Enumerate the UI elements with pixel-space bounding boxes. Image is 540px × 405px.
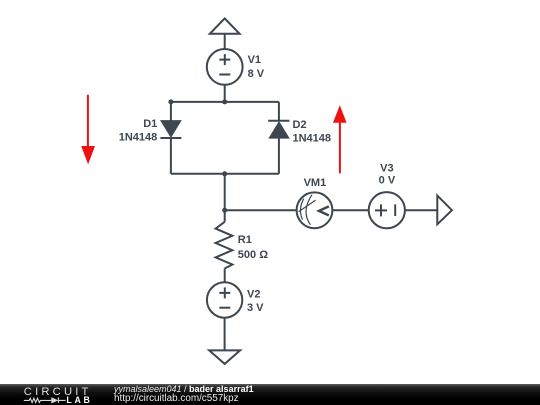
label V1 / 8 V <box>248 54 265 80</box>
diode D1 (1N4148, anode up) <box>160 121 181 138</box>
wire: bottom rail <box>171 173 279 175</box>
diode D2 (1N4148, anode down) <box>268 121 289 138</box>
annotation arrow (red, down) left <box>81 95 95 165</box>
voltmeter VM1 <box>297 192 333 228</box>
wire: left branch upper <box>170 102 172 121</box>
wire: V2 to ground <box>224 318 226 351</box>
credit text <box>114 385 254 394</box>
svg-text:0 V: 0 V <box>379 174 396 186</box>
wire: VM1 to V3 <box>332 209 368 211</box>
svg-text:3 V: 3 V <box>247 302 264 314</box>
svg-text:D1: D1 <box>143 118 157 130</box>
footer bar <box>0 384 540 405</box>
wire: top rail <box>171 101 279 103</box>
svg-text:500 Ω: 500 Ω <box>238 249 268 261</box>
svg-text:R1: R1 <box>238 234 252 246</box>
wire: right branch upper <box>278 102 280 121</box>
svg-text:LAB: LAB <box>66 395 92 405</box>
wire: V3 to output port <box>405 209 437 211</box>
label R1 / 500 ohm <box>238 234 268 261</box>
label D2 / 1N4148 <box>293 119 332 144</box>
wire: R1 to V2 <box>224 268 226 282</box>
svg-text:1N4148: 1N4148 <box>119 132 158 144</box>
label D1 / 1N4148 <box>119 118 158 144</box>
svg-text:VM1: VM1 <box>304 177 327 189</box>
svg-text:V2: V2 <box>247 288 260 300</box>
node junction dot (bottom rail middle) <box>222 171 227 176</box>
svg-text:V1: V1 <box>248 54 261 66</box>
port P2 (right arrow terminal) <box>437 196 452 225</box>
node junction dot (top middle, V1 tap) <box>222 99 227 104</box>
resistor R1 (500 ohm) <box>216 222 233 269</box>
CircuitLab logo <box>0 384 110 405</box>
wire: V1 to top rail <box>224 85 226 102</box>
wire: left branch lower <box>170 138 172 174</box>
voltage source V1 (8 V) <box>207 49 243 85</box>
annotation arrow (red, up) right <box>333 105 347 173</box>
node junction dot (top-left corner) <box>168 99 173 104</box>
label VM1 <box>304 177 327 189</box>
label V3 / 0 V <box>379 163 396 187</box>
wire: top port to V1 <box>224 34 226 49</box>
node junction dot (node A) <box>222 208 227 213</box>
svg-text:V3: V3 <box>380 163 393 175</box>
wire: node A to R1 <box>224 210 226 222</box>
voltage source V2 (3 V) <box>207 282 242 317</box>
credit url line <box>114 394 239 404</box>
wire: right branch lower <box>278 138 280 174</box>
label V2 / 3 V <box>247 288 264 314</box>
ground <box>209 350 240 364</box>
svg-text:D2: D2 <box>293 119 307 131</box>
voltage source V3 (0 V) <box>369 192 405 228</box>
svg-text:8 V: 8 V <box>248 68 265 80</box>
wire: node A to VM1 <box>225 209 297 211</box>
port P1 (up arrow terminal at top) <box>210 18 240 33</box>
svg-text:1N4148: 1N4148 <box>293 132 332 144</box>
wire: bottom rail to node A <box>224 174 226 210</box>
